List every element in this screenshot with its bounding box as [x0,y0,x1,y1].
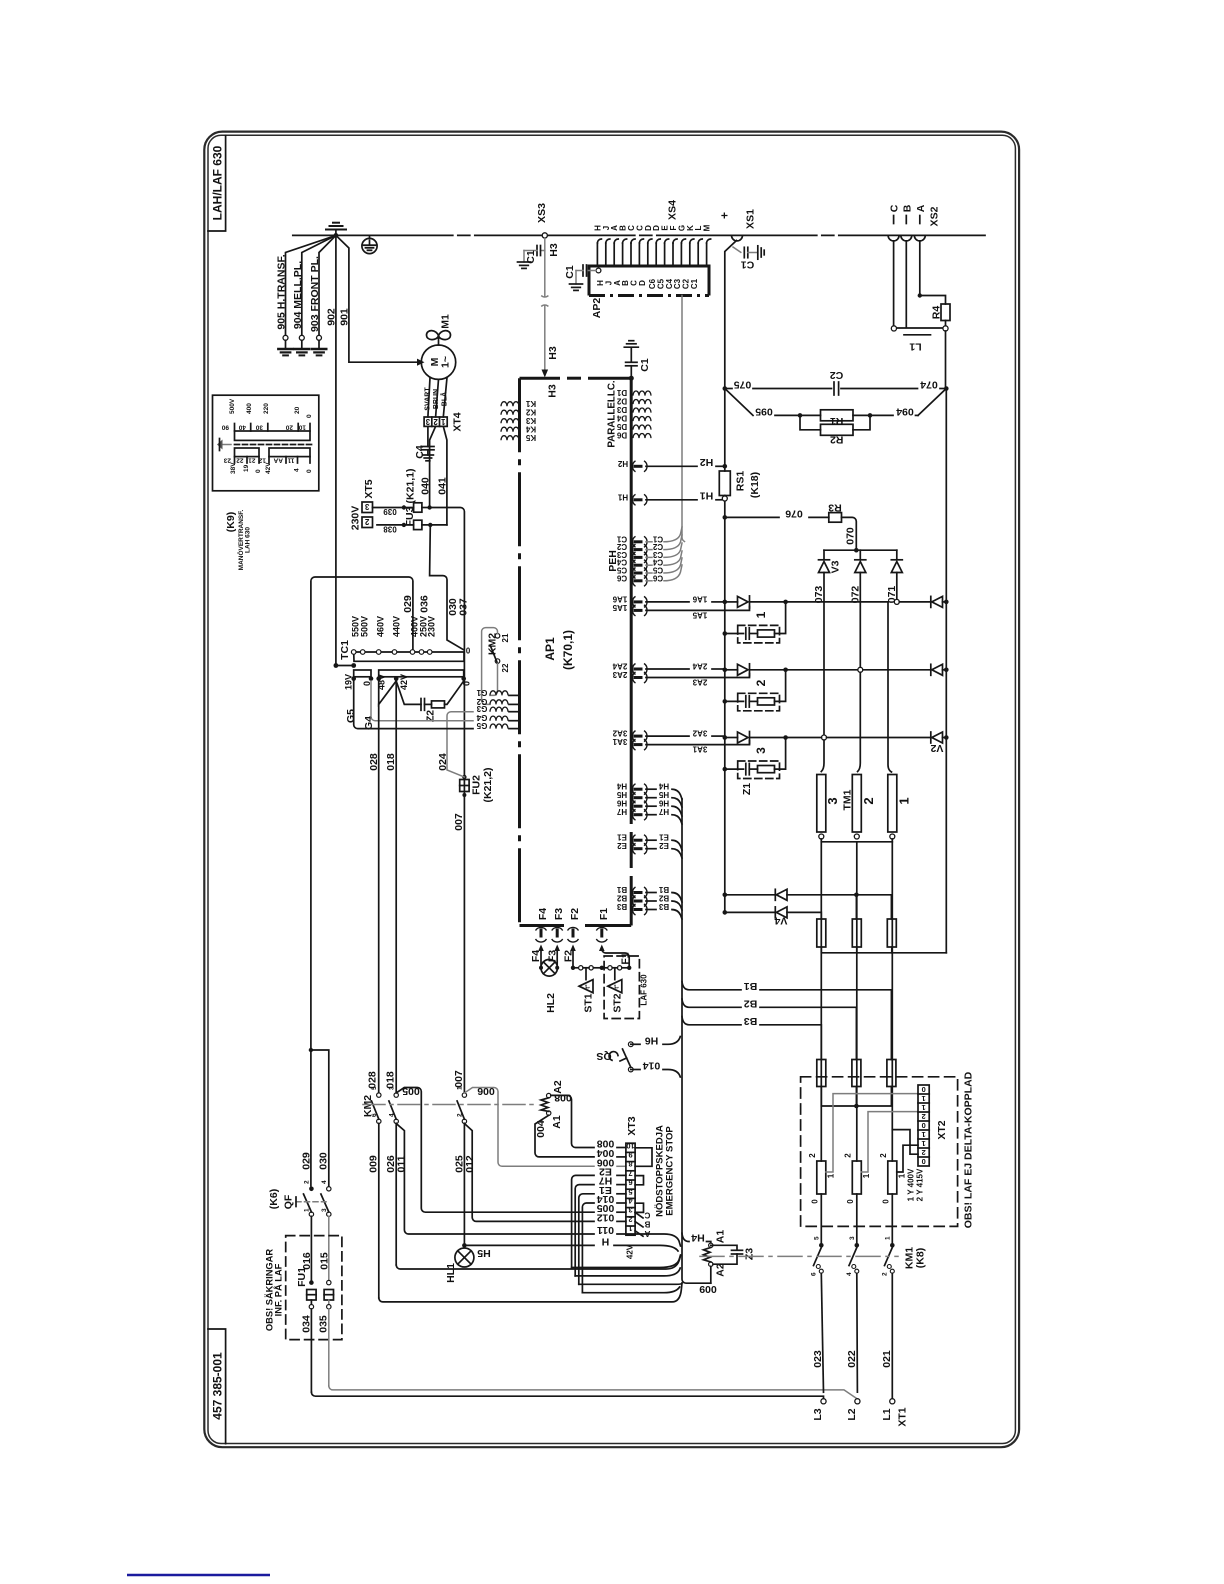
svg-text:009: 009 [699,1283,717,1295]
svg-text:H: H [602,1235,610,1247]
snubber Z1 row2 [723,670,786,711]
thyristor 3 [723,732,931,754]
svg-text:018: 018 [385,1071,397,1089]
plugs E1 E2 [617,833,682,858]
svg-text:H5: H5 [658,790,669,799]
plugs H4-H7 [616,782,682,824]
svg-text:H5: H5 [616,790,627,799]
wire 903 to FRONT PL ground [317,235,336,348]
svg-text:LAH 630: LAH 630 [245,527,252,553]
fuse FU1 b [318,1280,334,1386]
svg-text:E1: E1 [659,833,669,842]
svg-text:2: 2 [879,1153,888,1158]
svg-text:902: 902 [326,308,338,326]
svg-text:M: M [703,224,712,231]
svg-text:42V: 42V [265,462,272,474]
inductor L1 [891,326,948,353]
link wires to XT2 [892,1130,918,1155]
svg-text:1: 1 [922,1139,926,1148]
svg-text:C2: C2 [830,369,844,381]
fan symbol [427,331,451,345]
svg-text:037: 037 [458,598,470,616]
svg-text:FU3: FU3 [404,506,416,526]
plug H2 [617,456,724,472]
board AP1 right edge [630,378,633,925]
svg-text:C1: C1 [616,534,627,543]
svg-text:2: 2 [882,1272,889,1276]
svg-text:039: 039 [383,507,397,516]
svg-text:076: 076 [785,508,803,520]
svg-text:030: 030 [318,1152,330,1170]
svg-text:2: 2 [754,679,768,686]
wire 041 [437,426,449,525]
svg-text:071: 071 [886,586,898,604]
svg-text:(K21,1): (K21,1) [405,468,417,503]
transformer TC1 secondary windings [344,670,472,730]
diode V2 row2 [931,664,949,675]
svg-text:H7: H7 [658,807,669,816]
svg-text:H4: H4 [616,782,627,791]
svg-text:H2: H2 [617,459,628,468]
label MANOVERTRANSF LAH 630 [236,509,252,570]
svg-text:C2: C2 [616,542,627,551]
svg-text:E2: E2 [659,841,669,850]
svg-text:D: D [638,280,647,286]
motor M1 [421,314,455,379]
svg-text:H1: H1 [617,492,628,501]
svg-text:903 FRONT PL.: 903 FRONT PL. [309,256,321,332]
svg-text:E2: E2 [617,841,627,850]
svg-text:400: 400 [246,403,253,414]
wire 040 [420,426,436,507]
svg-text:2: 2 [457,1113,464,1117]
wire 075 074 with capacitor C2 [727,369,944,395]
svg-text:012: 012 [597,1211,615,1223]
svg-text:4: 4 [294,468,301,472]
svg-text:022: 022 [846,1350,858,1368]
svg-text:1: 1 [304,1208,311,1212]
svg-text:XT4: XT4 [452,412,464,431]
svg-text:C3: C3 [652,550,663,559]
svg-text:2: 2 [808,1153,817,1158]
svg-text:3: 3 [849,1236,856,1240]
svg-text:V2: V2 [930,742,943,754]
dashed box XT2 delta [801,1077,958,1227]
svg-text:041: 041 [437,477,449,495]
svg-text:2A3: 2A3 [612,670,627,679]
svg-text:004: 004 [597,1147,615,1159]
labels 1Y400V 2Y415V [907,1168,925,1201]
capacitor C1 at AP1 corner [624,341,651,379]
svg-text:023: 023 [812,1350,824,1368]
svg-text:B2: B2 [658,894,669,903]
svg-text:AA: AA [273,457,283,464]
svg-text:B: B [901,204,913,212]
svg-text:034: 034 [301,1315,313,1333]
svg-text:901: 901 [339,308,351,326]
svg-text:3A1: 3A1 [692,745,707,754]
svg-text:K1: K1 [525,399,536,408]
svg-text:012: 012 [464,1155,476,1173]
connector XS4 pins and labels [597,239,710,266]
svg-text:095: 095 [755,406,773,418]
XT3 jumper 7-6 [635,1176,643,1185]
svg-text:19V: 19V [344,674,354,690]
svg-text:8: 8 [628,1160,632,1169]
diode V2 row3 [930,732,948,754]
harness bundle AP2 to PEH [682,296,685,542]
dashed box LAF 630 [604,956,648,1019]
svg-text:C5: C5 [616,566,627,575]
plugs B1 B2 B3 [616,885,682,919]
wire XS2 A phase [920,241,946,304]
svg-text:C2: C2 [652,542,663,551]
svg-text:C1: C1 [741,259,755,271]
contactor KM1 pole 1 [811,1236,824,1392]
AP2 pin labels [596,278,699,289]
svg-text:1: 1 [441,417,446,426]
chassis earth bus line [293,234,985,236]
svg-text:220: 220 [263,403,270,414]
svg-text:035: 035 [318,1315,330,1333]
svg-text:XT3: XT3 [626,1116,638,1135]
wire 025 [454,1155,466,1173]
svg-text:G5: G5 [345,709,357,723]
contactor KM2 aux contact 3 4 [388,1086,398,1265]
svg-text:QS: QS [596,1050,611,1062]
terminal XT5 [350,479,376,530]
wire 029 path TC1 400V to QF [301,577,415,1186]
wire 011 [396,1124,681,1247]
plug H1 [617,490,721,506]
svg-text:3: 3 [825,797,840,804]
KM1 linkage [700,1247,927,1269]
svg-text:F4: F4 [537,908,549,920]
svg-text:6: 6 [371,1113,378,1117]
svg-text:H2: H2 [700,456,714,468]
voltage link col2 [844,1112,919,1204]
svg-text:K4: K4 [525,424,536,433]
svg-text:2: 2 [433,417,438,426]
svg-text:XT1: XT1 [897,1407,909,1426]
transformer TC1 primary [339,616,470,661]
svg-text:B3: B3 [744,1015,758,1027]
svg-text:9: 9 [628,1151,632,1160]
svg-text:C: C [889,204,901,212]
earth in circle symbol [362,235,377,253]
wire 012 [464,1124,626,1224]
wire 018 [385,681,398,1093]
wire 073 [813,573,827,772]
svg-text:(K9): (K9) [225,512,237,532]
main DC bus left [724,389,726,472]
svg-text:(K8): (K8) [915,1248,927,1268]
voltage link col3 [879,1145,918,1204]
svg-text:F3: F3 [553,908,565,920]
thermal switch ST1 [575,966,604,1013]
svg-text:B3: B3 [658,902,669,911]
svg-text:036: 036 [419,595,431,613]
capacitor C1 at XS3 [518,246,545,269]
svg-text:2A4: 2A4 [692,662,707,671]
svg-text:C1: C1 [525,250,537,264]
svg-text:H3: H3 [547,384,559,398]
label NODSTOPPSKEDJA EMERGENCY STOP [655,1125,676,1217]
svg-text:(K6): (K6) [268,1189,280,1209]
svg-text:+: + [718,212,732,219]
connector PEH C1-C6 [607,527,682,586]
svg-text:TM1: TM1 [842,789,854,810]
suppressor Z2 [379,681,464,722]
rectifier V4 row lower [723,907,822,919]
svg-text:007: 007 [453,1070,465,1088]
earth symbol above fan point [326,223,346,236]
svg-text:094: 094 [896,406,914,418]
svg-text:AP1: AP1 [543,637,557,661]
svg-text:10: 10 [298,424,306,431]
svg-text:028: 028 [367,1071,379,1089]
svg-text:7: 7 [628,1169,632,1178]
wire G5 [354,681,473,729]
svg-text:2: 2 [364,517,369,526]
svg-text:H4: H4 [691,1232,705,1244]
contactor KM1 coil A1 [682,1230,727,1277]
svg-text:011: 011 [597,1224,614,1236]
svg-text:(K70,1): (K70,1) [561,630,575,670]
plug 2A4 2A3 [612,662,749,687]
svg-text:2 Y 415V: 2 Y 415V [916,1168,925,1201]
svg-text:230V: 230V [350,506,362,531]
svg-text:HL2: HL2 [545,993,557,1013]
svg-text:H5: H5 [477,1247,491,1259]
wire B1 row [682,980,891,1060]
transformer TM1 primary windings [817,775,912,842]
XT3 jumper 4-3 [635,1203,643,1212]
svg-text:5: 5 [628,1187,632,1196]
svg-text:075: 075 [734,379,752,391]
svg-text:070: 070 [845,527,857,545]
svg-text:M1: M1 [440,314,452,329]
wire 028 [367,704,381,1092]
svg-text:ST1: ST1 [583,993,595,1012]
damping resistors [817,919,947,953]
connector G1-G5 on AP1 left edge [476,688,518,730]
wire 009 [368,1155,683,1302]
svg-text:BRUN: BRUN [433,389,440,409]
svg-text:Z3: Z3 [744,1248,756,1260]
svg-text:1A5: 1A5 [612,603,627,612]
capacitor C1 at XS1 [733,246,764,271]
svg-text:42V: 42V [399,674,409,690]
svg-text:014: 014 [643,1060,661,1072]
wire F4 to lamp HL2 [530,945,544,970]
svg-text:21: 21 [248,457,256,464]
title box LAH/LAF 630 [208,135,226,231]
ground MELL.PL [295,349,309,355]
svg-text:3: 3 [388,1086,395,1090]
svg-text:V3: V3 [830,560,842,573]
plug 1A6 1A5 [612,594,749,619]
svg-text:A: A [644,1229,650,1238]
svg-text:005: 005 [402,1085,420,1097]
svg-text:021: 021 [881,1350,893,1368]
svg-text:OBS! LAF EJ DELTA-KOPPLAD: OBS! LAF EJ DELTA-KOPPLAD [963,1071,975,1228]
svg-text:500V: 500V [229,398,236,414]
svg-text:C4: C4 [616,558,627,567]
node 074 [944,386,949,391]
svg-text:F1: F1 [620,952,632,964]
wire 005 [396,1085,626,1214]
wire 007 FU3 to KM2 contact [430,508,467,1093]
snubber Z1 row1 [723,602,786,643]
svg-text:42V: 42V [626,1244,635,1259]
svg-text:0: 0 [922,1085,926,1094]
svg-text:SVART: SVART [425,387,432,411]
svg-text:D1: D1 [616,388,627,397]
wire 036 from FU3 [419,525,465,650]
svg-text:B1: B1 [744,980,758,992]
wire 034 to XT1 L3 [311,1392,823,1399]
svg-text:3: 3 [628,1206,632,1215]
svg-text:1A6: 1A6 [612,594,627,603]
svg-text:AP2: AP2 [591,298,603,319]
svg-text:22: 22 [501,663,510,672]
svg-text:H3: H3 [548,243,560,257]
svg-text:1: 1 [922,1103,926,1112]
svg-text:0: 0 [465,646,470,655]
svg-text:015: 015 [319,1252,331,1270]
svg-text:G1: G1 [476,688,487,697]
connector K1-K5 on AP1 left edge [501,399,536,442]
svg-text:ST2: ST2 [611,993,623,1012]
svg-text:0: 0 [255,469,262,473]
svg-text:INF. PÅ LAF: INF. PÅ LAF [274,1263,284,1316]
svg-text:5: 5 [814,1236,821,1240]
terminal strip XT2 [918,1085,948,1166]
svg-text:1: 1 [457,1086,464,1090]
svg-text:440V: 440V [392,616,402,637]
svg-text:90: 90 [221,424,229,431]
contactor KM1 pole 3 [882,1236,895,1399]
XT3 fan out C B A [635,1212,643,1236]
svg-text:1: 1 [897,797,912,804]
svg-text:R2: R2 [830,434,844,446]
svg-text:2: 2 [304,1180,311,1184]
ground FRONT PL [312,349,326,355]
blue underline mark bottom left [127,1574,270,1577]
svg-text:19: 19 [243,464,250,472]
wire H6 QS [631,1034,681,1046]
svg-text:G4: G4 [476,713,487,722]
wire 902 junction to TC1 [334,663,357,668]
svg-text:B2: B2 [616,894,627,903]
main bus right [945,389,947,953]
svg-text:3A1: 3A1 [612,737,627,746]
fuse FU1 a [301,1280,317,1392]
svg-text:1: 1 [754,611,768,618]
svg-text:BLÅ: BLÅ [440,392,449,406]
svg-text:(K21,2): (K21,2) [482,767,494,802]
svg-text:D5: D5 [616,422,627,431]
svg-text:3A2: 3A2 [612,729,627,738]
contact KM2 1 2 with wire 007 [457,1086,467,1243]
svg-text:EMERGENCY STOP: EMERGENCY STOP [665,1126,676,1216]
wire 905 to H.TRANSF ground [283,235,336,348]
wire row1 to TM1 winding 1 [888,602,931,772]
svg-text:1: 1 [922,1130,926,1139]
voltage link col1 [808,1094,918,1204]
dashed box FU1 [265,1236,342,1340]
svg-text:3A2: 3A2 [692,729,707,738]
wire F2 [563,945,576,971]
svg-text:K3: K3 [525,416,536,425]
node A junction [918,293,922,297]
wire 008 to XT3 [551,1095,594,1147]
svg-text:028: 028 [368,753,380,771]
wire XS2 B phase [905,241,907,327]
wire 904 to MELL.PL ground [299,235,336,348]
svg-text:4: 4 [846,1272,853,1276]
svg-text:XT5: XT5 [363,479,375,498]
connector XS1 [718,209,757,241]
svg-text:F2: F2 [563,950,575,962]
wire 035 to XT1 L2 [329,1386,858,1399]
fuse FU2 [460,767,494,802]
resistor coil A1 A2 KM2 [535,1080,572,1138]
svg-text:904 MELL.PL.: 904 MELL.PL. [292,261,304,329]
svg-text:C1: C1 [564,265,576,279]
phase column 2 [856,842,858,1161]
svg-text:D2: D2 [616,397,627,406]
wire 095 094 with R1 R2 [725,389,947,446]
svg-text:B: B [644,1220,650,1229]
svg-text:2: 2 [861,797,876,804]
svg-text:018: 018 [385,753,397,771]
wire H3 from XS3 to AP1 [542,238,560,398]
wire 026 [385,1155,681,1269]
capacitor C4 [414,426,434,460]
svg-text:H6: H6 [645,1034,659,1046]
svg-text:22: 22 [236,457,244,464]
svg-text:B1: B1 [658,885,669,894]
svg-text:0: 0 [306,414,313,418]
svg-text:006: 006 [477,1085,495,1097]
contactor KM1 pole 2 [846,1236,859,1392]
svg-text:L2: L2 [846,1408,858,1420]
contactor KM2 coil contact 21 22 [482,628,510,705]
terminal XT4 [424,412,463,431]
svg-text:PARALLELLC.: PARALLELLC. [607,380,618,448]
svg-text:H6: H6 [658,799,669,808]
svg-text:RS1: RS1 [735,471,747,492]
ground H.TRANSF [278,349,292,355]
svg-text:0: 0 [811,1199,820,1204]
board AP1 left edge [518,378,521,925]
svg-text:H6: H6 [616,799,627,808]
thyristor 1 [723,596,889,618]
svg-text:4: 4 [388,1113,395,1117]
XT3 jumper 10-8 [635,1148,652,1167]
svg-text:R4: R4 [931,306,943,320]
svg-text:2: 2 [628,1215,632,1224]
svg-text:XS3: XS3 [536,203,548,223]
svg-text:XT2: XT2 [936,1120,948,1139]
wire 030 QF-B feed [309,1048,330,1186]
svg-text:460V: 460V [376,616,386,637]
rectifier V4 row upper [723,889,892,926]
svg-text:HL1: HL1 [445,1263,457,1283]
svg-text:1: 1 [885,1236,892,1240]
